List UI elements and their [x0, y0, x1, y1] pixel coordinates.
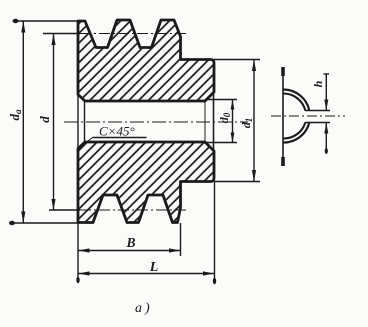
top pitch line (groove pitch diameter) [43, 33, 80, 35]
svg-text:B: B [125, 235, 135, 250]
detail inner arc lower [284, 123, 306, 139]
detail outer arc lower [284, 123, 310, 143]
detail centerline [271, 115, 345, 117]
dimension h : dimension line lower with arrow [325, 123, 327, 153]
detail neck top line [305, 110, 330, 112]
bore right face line across hole [213, 92, 215, 151]
pulley lower-half section (hatched) [78, 142, 214, 223]
B/L left extension line [77, 223, 79, 279]
dimension d_a : extension lines [13, 20, 78, 22]
dimension d : dimension line with arrows [53, 34, 55, 211]
detail outer arc upper [284, 90, 310, 111]
dimension d_0 : dimension line with arrows [232, 100, 234, 143]
dimension B : dimension line with arrows [78, 250, 181, 252]
dimension d_0 : extension lines [205, 99, 237, 101]
dimension h : dimension line upper with arrow [325, 74, 327, 111]
B right extension line [180, 223, 182, 256]
svg-text:h: h [311, 80, 325, 87]
svg-text:C×45°: C×45° [99, 124, 135, 139]
L right extension line [214, 182, 216, 281]
detail neck bottom line [305, 122, 330, 124]
bore left chamfer inner edge [84, 101, 86, 142]
bore left face line across hole [77, 95, 79, 149]
detail inner arc upper [284, 94, 306, 111]
dimension d_a : dimension line with arrows [22, 21, 24, 223]
main axis centerline [64, 121, 248, 123]
svg-text:L: L [149, 260, 159, 275]
pulley upper-half section (hatched) [78, 20, 214, 101]
dimension d_1 : extension lines [214, 59, 260, 61]
bottom pitch line [49, 209, 80, 211]
detail vertical face line [282, 67, 284, 166]
svg-text:d: d [37, 116, 52, 123]
dimension d_1 : dimension line with arrows [253, 60, 255, 182]
dimension L : dimension line with arrows [78, 273, 215, 275]
bore right chamfer inner edge [204, 101, 206, 142]
